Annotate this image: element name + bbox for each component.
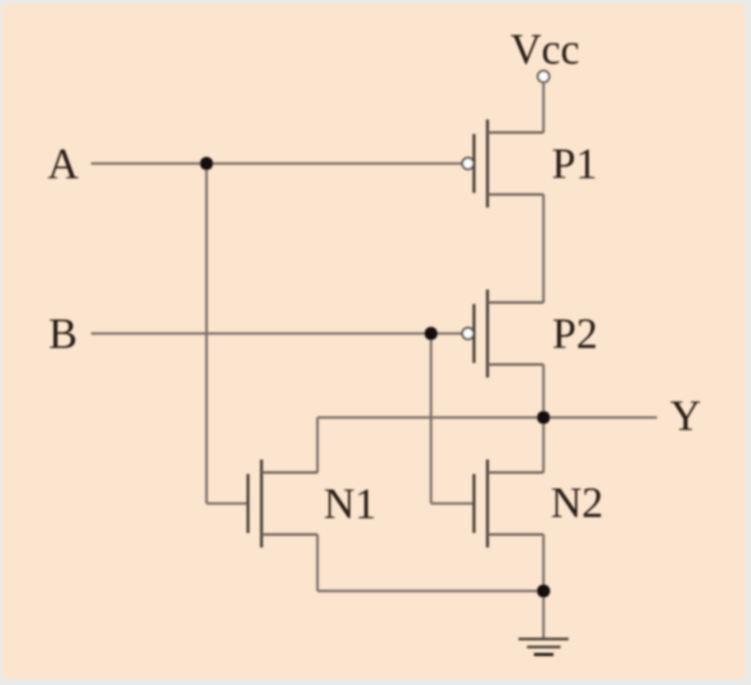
P1 source stub (488, 131, 544, 134)
transistor P1 (PMOS) (462, 120, 543, 208)
svg-text:P2: P2 (552, 311, 597, 358)
svg-text:A: A (47, 141, 78, 188)
P1 gate bar (473, 134, 476, 193)
N2 drain stub (488, 471, 544, 474)
wire: ground rail (318, 590, 544, 593)
svg-text:N1: N1 (324, 481, 377, 528)
wire: P1 drain to P2 source (542, 195, 545, 303)
N2 source stub (488, 533, 544, 536)
node Y junction dot (537, 411, 550, 424)
N1 channel bar (260, 460, 263, 548)
transistor N1 (NMOS) (248, 460, 318, 548)
wire: N1 source down to ground rail (316, 535, 319, 592)
P2 source stub (488, 301, 544, 304)
node A junction dot (200, 157, 213, 170)
wire: Y line down to N1 drain (316, 418, 319, 473)
P1 drain stub (488, 193, 544, 196)
wire: N2 source down to ground junction (542, 535, 545, 592)
node Vcc terminal (open circle) (538, 71, 549, 82)
P1 gate bubble (462, 158, 473, 169)
wire: N2 gate lead (431, 502, 474, 505)
P2 gate bar (473, 304, 476, 363)
wire: P2 drain to Y node (542, 365, 545, 418)
transistor P2 (PMOS) (462, 290, 543, 378)
svg-text:Y: Y (670, 393, 701, 440)
svg-text:B: B (49, 311, 78, 358)
P2 drain stub (488, 363, 544, 366)
ground (519, 591, 569, 655)
P2 channel bar (486, 290, 489, 378)
N1 source stub (262, 533, 318, 536)
wire: A junction down to N1 gate level (205, 164, 208, 504)
N2 channel bar (486, 460, 489, 548)
wire: B junction down to N2 gate level (430, 334, 433, 504)
wire: Y node down to N2 drain (542, 418, 545, 473)
wire: output Y horizontal (318, 416, 658, 419)
wire: Vcc to P1 source (542, 82, 545, 133)
N1 drain stub (262, 471, 318, 474)
svg-text:Vcc: Vcc (510, 27, 579, 74)
P2 gate bubble (462, 328, 473, 339)
N2 gate bar (473, 474, 476, 533)
node ground junction dot (537, 584, 550, 597)
svg-text:N2: N2 (551, 480, 604, 527)
wire: N1 gate lead (207, 502, 249, 505)
transistor N2 (NMOS) (474, 460, 544, 548)
wire: input A horizontal (91, 162, 463, 165)
node B junction dot (424, 327, 437, 340)
P1 channel bar (486, 120, 489, 208)
N1 gate bar (247, 474, 250, 533)
wire: input B horizontal (91, 332, 463, 335)
svg-text:P1: P1 (552, 141, 597, 188)
